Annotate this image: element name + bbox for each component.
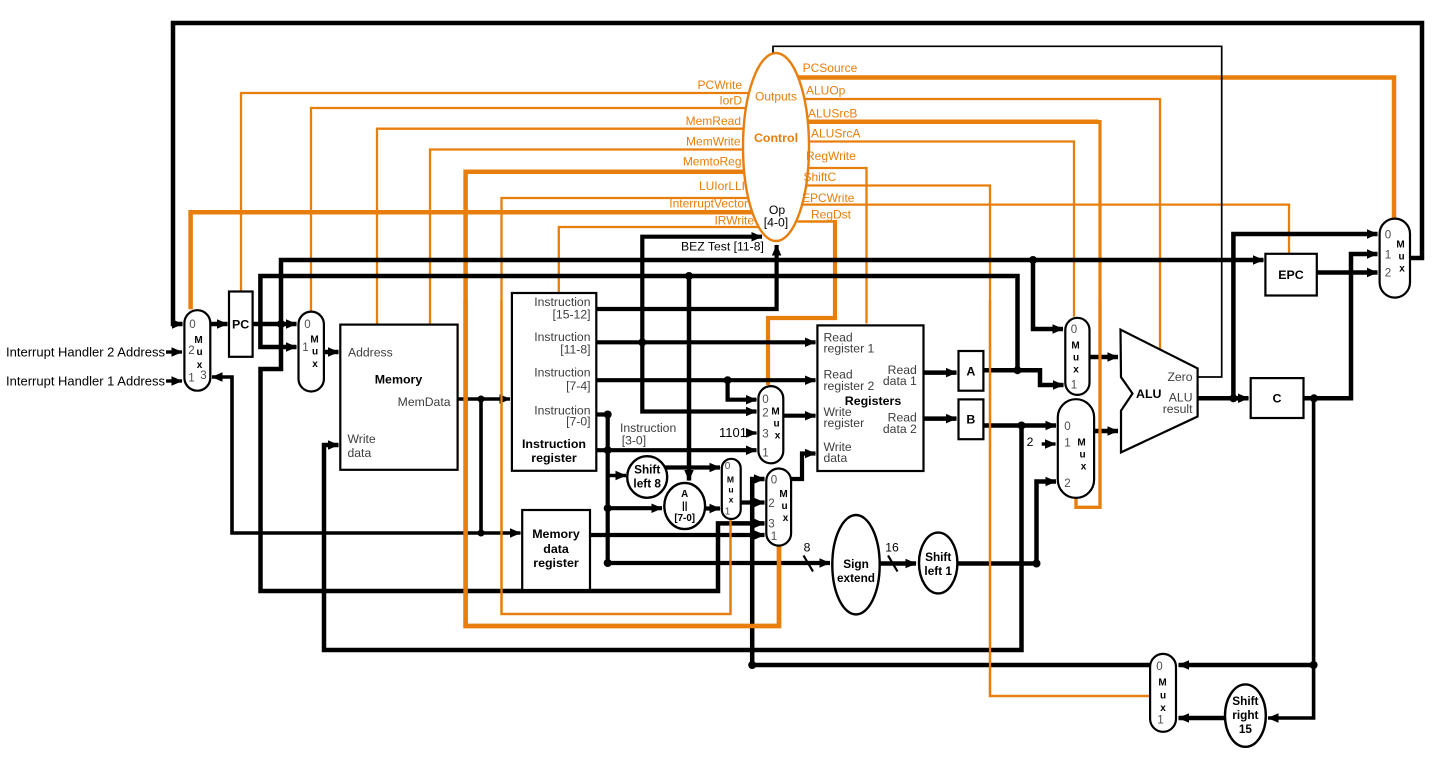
- svg-text:ALUOp: ALUOp: [806, 83, 846, 97]
- concat A and 7-0 oval: [664, 483, 705, 529]
- svg-text:PCWrite: PCWrite: [698, 78, 743, 92]
- svg-text:ShiftC: ShiftC: [804, 170, 837, 184]
- ALU polygon: [1121, 330, 1198, 453]
- wire B register branch to Memory write data: [324, 426, 1022, 651]
- svg-text:Instruction: Instruction: [522, 437, 586, 451]
- wire sign extend to shift left 1: [878, 561, 916, 566]
- svg-text:2: 2: [1385, 267, 1391, 280]
- svg-text:EPC: EPC: [1278, 268, 1304, 282]
- svg-text:ALUSrcB: ALUSrcB: [808, 106, 857, 120]
- svg-text:LUIorLLI: LUIorLLI: [699, 179, 745, 193]
- svg-text:Registers: Registers: [845, 394, 902, 408]
- svg-text:Interrupt Handler 1 Address: Interrupt Handler 1 Address: [6, 374, 165, 389]
- svg-text:x: x: [1073, 365, 1079, 376]
- mux M3 write-register mux: [758, 386, 783, 463]
- memory data register box: [522, 510, 590, 590]
- svg-text:0: 0: [1064, 420, 1070, 433]
- svg-text:InterruptVector: InterruptVector: [669, 196, 748, 210]
- svg-text:[7-4]: [7-4]: [566, 379, 590, 393]
- wire interrupt handler 2 address input: [166, 350, 182, 353]
- wire memory data register output to write-data mux input 1: [590, 533, 765, 537]
- wire instruction 7-0 to sign extend: [608, 561, 830, 565]
- svg-text:u: u: [1398, 252, 1404, 263]
- svg-text:0: 0: [189, 318, 195, 331]
- svg-text:right: right: [1232, 708, 1258, 722]
- svg-text:Interrupt Handler 2 Address: Interrupt Handler 2 Address: [6, 345, 165, 360]
- svg-text:M: M: [310, 335, 318, 346]
- svg-text:Write: Write: [348, 432, 376, 446]
- wire mux feedback loop (right mux output to PC source mux input 0): [173, 23, 1422, 324]
- svg-text:M: M: [1071, 341, 1079, 352]
- svg-text:data 1: data 1: [883, 374, 917, 388]
- wire MemtoReg overlay (orange thick on top): [466, 300, 779, 626]
- register PC: [229, 292, 253, 357]
- labels registers file: [824, 331, 918, 466]
- wire ALUOp (orange): [804, 99, 1160, 350]
- registers file box: [817, 325, 923, 471]
- wire C branch to bottom mux input 0: [1179, 663, 1314, 668]
- svg-text:x: x: [1160, 703, 1166, 714]
- svg-text:16: 16: [885, 541, 899, 555]
- wire read data 2 to B register: [924, 416, 957, 421]
- svg-text:RegWrite: RegWrite: [806, 149, 856, 163]
- mux M1 interrupt address mux: [184, 310, 210, 391]
- mux M4 LUI small mux: [722, 459, 741, 519]
- wire ShiftC overlay (orange on top): [990, 300, 1149, 696]
- labels mux M7: [1064, 420, 1086, 490]
- labels mux M3: [762, 393, 780, 460]
- svg-text:Shift: Shift: [925, 550, 951, 564]
- svg-text:[11-8]: [11-8]: [560, 342, 590, 356]
- wire LUIorLLI (orange): [502, 198, 749, 614]
- svg-text:[15-12]: [15-12]: [553, 308, 591, 322]
- wire RegWrite (orange): [808, 168, 867, 324]
- svg-text:u: u: [1073, 353, 1079, 364]
- instruction register box: [512, 293, 596, 471]
- shift right 15 oval: [1225, 684, 1266, 746]
- wire ALUSrcA (orange): [809, 142, 1074, 317]
- svg-text:2: 2: [1027, 435, 1034, 449]
- svg-text:M: M: [1396, 240, 1404, 251]
- svg-text:u: u: [1079, 450, 1085, 461]
- svg-text:IRWrite: IRWrite: [714, 214, 754, 228]
- svg-text:1: 1: [302, 341, 308, 354]
- labels mux M5: [768, 474, 788, 544]
- svg-text:u: u: [1160, 691, 1166, 702]
- svg-text:register: register: [533, 556, 579, 570]
- wire ALU result riser to right mux input 0: [1233, 234, 1377, 398]
- svg-text:M: M: [1077, 438, 1085, 449]
- svg-text:M: M: [194, 335, 202, 346]
- svg-text:ALUSrcA: ALUSrcA: [811, 127, 860, 141]
- wire PCSource (orange thick): [798, 78, 1394, 218]
- svg-text:[7-0]: [7-0]: [674, 513, 695, 524]
- svg-text:data: data: [824, 451, 848, 465]
- wire instruction 7-0 branch to shift left 8: [608, 474, 626, 478]
- svg-text:u: u: [312, 347, 318, 358]
- svg-text:EPCWrite: EPCWrite: [802, 191, 855, 205]
- wire LUI mux output to write-data mux input 2: [741, 500, 765, 504]
- wire ALU result to C register: [1198, 396, 1249, 401]
- wire instruction 7-4 branch to write-register mux input 0: [728, 380, 757, 400]
- svg-text:M: M: [771, 407, 779, 418]
- svg-text:1: 1: [1385, 249, 1391, 262]
- labels control right side: [802, 61, 860, 221]
- wire instruction 3-0 to write-register mux input 1: [596, 448, 756, 452]
- svg-text:data: data: [543, 542, 569, 556]
- svg-text:0: 0: [725, 461, 731, 472]
- svg-text:1: 1: [762, 447, 768, 460]
- wire PC bus branch to ALUSrcA mux input 0: [1033, 260, 1063, 329]
- svg-text:1: 1: [1071, 379, 1077, 392]
- labels mux M2: [302, 318, 318, 370]
- wire IorD (orange): [311, 108, 746, 311]
- wire instruction 7-0 branch to concat oval: [608, 506, 662, 510]
- wire ALUSrcB mux output to ALU: [1094, 429, 1118, 434]
- svg-text:IorD: IorD: [719, 94, 742, 108]
- wire MemData branch down: [479, 399, 483, 533]
- svg-text:ALU: ALU: [1136, 387, 1162, 401]
- wire bottom mux output to write-data mux input 0: [752, 479, 1150, 665]
- wire InterruptVector (orange thick): [191, 212, 753, 309]
- bus width slash 8: [804, 556, 814, 572]
- svg-text:MemData: MemData: [398, 395, 451, 409]
- wire EPCWrite (orange): [803, 205, 1289, 253]
- svg-text:0: 0: [1156, 660, 1162, 673]
- svg-text:A: A: [966, 365, 975, 379]
- wire ALUSrcA mux output to ALU: [1090, 355, 1119, 360]
- wire left mux output to PC: [210, 322, 227, 327]
- svg-text:x: x: [783, 513, 789, 524]
- register A: [959, 351, 984, 391]
- wire IorD mux output to memory address: [324, 350, 339, 355]
- svg-text:PC: PC: [232, 318, 249, 332]
- svg-text:Memory: Memory: [375, 373, 423, 387]
- mux M8 PCSource right mux: [1380, 219, 1410, 298]
- labels instruction register: [522, 295, 591, 465]
- wire PCWrite (orange): [241, 93, 749, 291]
- svg-text:3: 3: [762, 428, 768, 441]
- svg-text:0: 0: [304, 318, 310, 331]
- svg-text:Shift: Shift: [1232, 694, 1258, 708]
- wire instruction 11-8 to read register 1: [596, 340, 815, 344]
- wire instruction 7-0 stub and riser: [596, 415, 607, 564]
- svg-text:PCSource: PCSource: [803, 61, 858, 75]
- memory unit box: [340, 325, 457, 470]
- labels mux M1: [188, 318, 206, 385]
- svg-text:u: u: [781, 501, 787, 512]
- wire A bus (A output riser to IorD mux input 1): [260, 276, 1017, 370]
- svg-text:x: x: [1081, 462, 1087, 473]
- svg-text:register: register: [531, 451, 577, 465]
- wire IRWrite (orange): [559, 227, 759, 292]
- wire EPC output to right mux input 2: [1317, 270, 1378, 275]
- wire C output down to shift right 15: [1268, 398, 1314, 718]
- wire LUIorLLI overlay (orange on top): [502, 300, 731, 614]
- svg-text:2: 2: [1064, 477, 1070, 490]
- register EPC: [1265, 254, 1316, 296]
- svg-text:register 1: register 1: [824, 342, 875, 356]
- mux M6 ALUSrcA mux: [1065, 318, 1089, 395]
- svg-text:Shift: Shift: [634, 463, 660, 477]
- svg-text:data: data: [348, 446, 372, 460]
- labels mux M6: [1071, 323, 1080, 392]
- bus width slash 16: [888, 556, 898, 572]
- svg-text:0: 0: [1385, 229, 1391, 242]
- svg-text:u: u: [773, 419, 779, 430]
- svg-text:3: 3: [768, 518, 774, 531]
- register C: [1251, 378, 1304, 418]
- svg-text:[4-0]: [4-0]: [764, 216, 788, 230]
- wire ShiftC (orange): [806, 186, 1149, 697]
- svg-text:Zero: Zero: [1167, 370, 1192, 384]
- wire MemWrite (orange): [430, 150, 743, 324]
- control unit oval U-CTRL: [743, 53, 809, 241]
- svg-text:M: M: [727, 475, 734, 485]
- svg-text:x: x: [729, 495, 734, 505]
- wire instruction 15-12 BEZ test to control: [596, 245, 776, 309]
- wire Zero output to control top: [773, 46, 1222, 377]
- svg-text:[3-0]: [3-0]: [622, 434, 646, 448]
- wire PC output to IorD mux input 0: [253, 322, 297, 327]
- wire ALUSrcB overlay (orange on top): [1076, 300, 1100, 507]
- wire shift right 15 output to bottom mux input 1: [1179, 716, 1226, 721]
- svg-text:1: 1: [771, 530, 777, 543]
- wire shift left 8 output to LUI mux input 0: [664, 465, 720, 469]
- svg-text:M: M: [779, 489, 787, 500]
- svg-text:MemRead: MemRead: [686, 114, 741, 128]
- wire B register output to ALUSrcB mux input 0: [983, 423, 1056, 428]
- wire constant 2 to ALUSrcB mux input 1: [1042, 442, 1056, 445]
- wire MemtoReg (orange thick): [466, 172, 779, 626]
- svg-text:Instruction: Instruction: [534, 366, 590, 380]
- svg-text:Sign: Sign: [843, 557, 869, 571]
- svg-text:2: 2: [762, 407, 768, 420]
- svg-text:Outputs: Outputs: [755, 90, 797, 104]
- svg-text:result: result: [1163, 402, 1193, 416]
- wire concat oval output to LUI mux input 1: [705, 506, 721, 510]
- svg-text:0: 0: [1071, 323, 1077, 336]
- mux M2 IorD mux: [299, 312, 324, 392]
- svg-text:Memory: Memory: [532, 527, 580, 541]
- svg-text:[7-0]: [7-0]: [566, 414, 590, 428]
- svg-text:u: u: [728, 485, 733, 495]
- svg-text:||: ||: [682, 501, 687, 512]
- svg-text:1101: 1101: [719, 425, 747, 440]
- svg-text:MemWrite: MemWrite: [686, 135, 741, 149]
- svg-text:2: 2: [768, 497, 774, 510]
- svg-text:MemtoReg: MemtoReg: [683, 155, 742, 169]
- labels mux M9: [1156, 660, 1166, 727]
- svg-text:B: B: [966, 413, 975, 427]
- svg-text:1: 1: [1064, 437, 1070, 450]
- svg-text:Address: Address: [348, 346, 393, 360]
- wire shift left 1 output to ALUSrcB mux input 2: [957, 482, 1056, 564]
- svg-text:M: M: [1158, 678, 1166, 689]
- svg-text:15: 15: [1239, 722, 1253, 736]
- svg-text:x: x: [197, 360, 203, 371]
- mux M5 write-data mux: [766, 469, 791, 546]
- wire interrupt handler 1 address input: [166, 379, 182, 382]
- labels memory unit: [348, 346, 451, 461]
- wire A register output to ALUSrcA mux input 1: [983, 370, 1063, 385]
- svg-text:1: 1: [188, 372, 194, 385]
- svg-text:1: 1: [1157, 714, 1163, 727]
- svg-text:C: C: [1273, 392, 1282, 406]
- svg-text:data 2: data 2: [883, 422, 917, 436]
- mux M9 bottom mux: [1150, 654, 1176, 732]
- svg-text:1: 1: [725, 507, 731, 518]
- wire C output to right mux input 1: [1304, 254, 1378, 398]
- register B: [959, 399, 984, 439]
- wire PC bus riser and PC bus to EPC input: [281, 260, 1264, 324]
- wire write-data mux output to registers write data: [791, 454, 815, 480]
- shift left 1 oval: [919, 533, 957, 594]
- svg-text:Control: Control: [754, 131, 798, 145]
- svg-text:register 2: register 2: [824, 379, 875, 393]
- svg-text:left 8: left 8: [633, 477, 661, 491]
- svg-text:register: register: [824, 416, 865, 430]
- wire MemData branch to memory data register: [481, 531, 521, 535]
- svg-text:0: 0: [762, 393, 768, 406]
- wire instruction 11-8 branch to control Op input: [642, 237, 762, 343]
- labels mux M4: [725, 461, 734, 518]
- wire ALUSrcB (orange thick): [807, 119, 1099, 124]
- wire read data 1 to A register: [924, 370, 957, 375]
- svg-text:u: u: [196, 347, 202, 358]
- wire MemData branch to left mux input 3: [212, 377, 481, 533]
- wire instruction 11-8 branch to write-register mux input 2: [642, 342, 756, 411]
- wire MemRead (orange): [377, 129, 744, 324]
- wire constant 1101 to write-register mux input 3: [749, 431, 757, 434]
- svg-text:x: x: [312, 359, 318, 370]
- svg-text:x: x: [775, 431, 781, 442]
- svg-text:0: 0: [771, 474, 777, 487]
- wire A bus branch into concat oval top: [687, 276, 692, 481]
- labels control left side: [669, 78, 754, 227]
- svg-text:BEZ Test [11-8]: BEZ Test [11-8]: [681, 240, 764, 254]
- svg-text:left 1: left 1: [924, 564, 952, 578]
- mux M7 ALUSrcB mux: [1058, 399, 1094, 498]
- wire write-register mux output to registers write register: [783, 414, 815, 418]
- shift left 8 oval: [627, 456, 667, 498]
- wire MemData output to instruction register: [458, 397, 510, 401]
- svg-text:extend: extend: [837, 571, 875, 585]
- svg-text:A: A: [681, 489, 688, 500]
- labels memory data register: [532, 527, 580, 570]
- svg-text:RegDst: RegDst: [811, 207, 852, 221]
- sign extend oval: [832, 515, 879, 614]
- wire PC riser lower branch to write-data mux input 3: [261, 324, 765, 591]
- labels mux M8: [1385, 229, 1405, 280]
- svg-text:8: 8: [804, 541, 811, 555]
- svg-text:x: x: [1399, 264, 1405, 275]
- labels control oval: [754, 90, 798, 230]
- wire instruction 7-4 to read register 2: [596, 378, 815, 382]
- wire RegDst (orange): [797, 220, 834, 223]
